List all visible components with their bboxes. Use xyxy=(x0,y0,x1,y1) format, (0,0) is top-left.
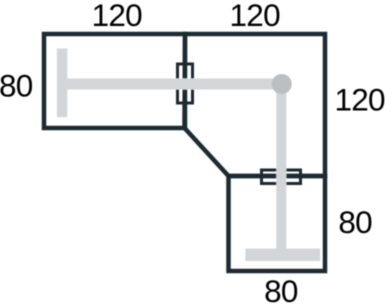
frame foot desk C (horizontal light bar) xyxy=(245,249,320,261)
desk C outline (80x80 bottom-right) xyxy=(229,176,326,271)
svg-text:80: 80 xyxy=(264,273,298,308)
frame beam vertical (leg down to desk C foot) xyxy=(276,84,286,254)
frame beam horizontal (desk A to leg) xyxy=(62,79,282,90)
svg-text:120: 120 xyxy=(334,82,385,118)
svg-text:120: 120 xyxy=(92,0,143,33)
desk A outline (120x80 top-left) xyxy=(44,34,185,128)
svg-text:80: 80 xyxy=(338,204,372,240)
desk B outline (120x120 corner, cut corner diagonal) xyxy=(185,34,326,176)
corner leg (gray circle) xyxy=(272,74,292,94)
connector clamp 1 (on divider between desk A and B) xyxy=(178,64,193,103)
svg-text:80: 80 xyxy=(0,67,33,103)
svg-text:120: 120 xyxy=(230,0,281,33)
frame foot desk A (vertical light bar) xyxy=(57,49,67,118)
connector clamp 2 (on edge between desk B and C) xyxy=(262,170,301,184)
